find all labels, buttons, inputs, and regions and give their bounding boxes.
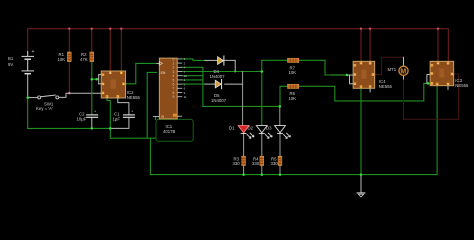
- wire IC4 pin8 drop: [369, 29, 371, 62]
- wire IC3 pins 6-2 bracket: [427, 75, 430, 84]
- svg-text:EN: EN: [161, 71, 166, 75]
- resistor R4: [260, 156, 264, 165]
- wire IC4 pin4 drop: [360, 29, 362, 62]
- battery B1: [22, 51, 35, 74]
- wire C2 bottom to ground rail: [91, 118, 93, 129]
- wire R1 top drop: [68, 29, 70, 52]
- svg-text:330: 330: [271, 161, 279, 166]
- wire IC1 out4 join: [182, 75, 203, 77]
- wire IC4 pin5 stub: [369, 88, 371, 92]
- wire IC1 out2 down: [182, 67, 203, 106]
- chip IC3 NE555: [430, 61, 454, 86]
- svg-text:330: 330: [233, 161, 241, 166]
- wire IC1 EN to ground: [147, 72, 156, 138]
- wire D1 anode drop: [242, 72, 244, 126]
- wire R7 node vertical: [261, 60, 263, 125]
- LED D3: [275, 126, 291, 139]
- capacitor C1: [123, 115, 135, 117]
- svg-text:10K: 10K: [58, 57, 66, 62]
- wire battery to switch: [28, 97, 38, 99]
- resistor R2: [90, 52, 94, 62]
- svg-text:D2: D2: [248, 125, 254, 130]
- svg-text:9: 9: [173, 95, 175, 99]
- wire motor bottom to IC3 pin3: [403, 75, 405, 80]
- svg-text:B1: B1: [8, 56, 14, 61]
- wire IC2 pin3 to IC1 CLK: [126, 63, 157, 83]
- svg-text:+: +: [32, 49, 35, 55]
- LED D2: [256, 126, 272, 139]
- node junction dots: red: [68, 28, 439, 95]
- wire IC2 pin1 to ground: [107, 98, 110, 128]
- wire IC3 pin4 drop: [437, 29, 439, 62]
- wire IC3 pin5 stub: [447, 86, 449, 90]
- wire power rail: [28, 29, 449, 58]
- LED D1 (red): [238, 126, 254, 139]
- svg-text:NE555: NE555: [127, 95, 141, 100]
- wire IC2 pin4 drop: [109, 29, 111, 71]
- chip IC4 NE555: [353, 61, 375, 88]
- wire R7 right to IC4: [299, 60, 347, 75]
- wire green box around IC1 label: [156, 119, 193, 141]
- wire R2 bottom: [91, 62, 93, 80]
- motor MT1: [399, 66, 408, 75]
- svg-text:NE555: NE555: [455, 83, 469, 88]
- IC1 output stubs, digits and pin numbers: [0, 0, 1, 1]
- svg-text:9V: 9V: [8, 62, 13, 67]
- wire node rail to D3/R6: [203, 105, 280, 107]
- svg-text:330: 330: [252, 161, 260, 166]
- wire IC2 pin5 to C1: [118, 98, 129, 114]
- wire IC1 out0 to D4: [182, 59, 205, 61]
- wire ground rail lower-left: [28, 127, 111, 129]
- wire R1 bottom to trigger node: [68, 62, 70, 94]
- wire IC3 pin8 drop (rail corner): [447, 58, 449, 62]
- svg-text:D1: D1: [229, 125, 235, 130]
- wire switch to trigger node: [59, 93, 69, 97]
- wire node down to C2: [91, 79, 93, 114]
- svg-text:NE555: NE555: [379, 84, 393, 89]
- svg-text:10K: 10K: [289, 70, 297, 75]
- wire battery bottom: [27, 75, 29, 98]
- switch SW1: [38, 95, 59, 99]
- wire LED3 cathode: [279, 133, 281, 156]
- wire C1 bottom to ground dot: [110, 118, 129, 129]
- wire IC4 pin1 ground: [360, 88, 362, 174]
- wire IC2 pin8 drop: [120, 29, 122, 71]
- wire threshold node: [92, 78, 97, 80]
- node junction dots: green: [26, 70, 429, 176]
- svg-text:1N4007: 1N4007: [210, 74, 226, 79]
- diode D4: [218, 56, 224, 66]
- wire LED ground rail: [150, 86, 437, 175]
- wire node to pins 7,6 bracket: [97, 78, 99, 80]
- wire IC4 pins 6-2 bracket: [350, 75, 354, 84]
- wire R6 right to IC3: [299, 83, 430, 101]
- wire R2 top drop: [91, 29, 93, 52]
- wire ground jog down: [110, 128, 155, 138]
- svg-text:10µF: 10µF: [77, 117, 87, 122]
- wire IC1 R pin to label box: [156, 117, 160, 120]
- wire LED2 anode/cathode: [261, 133, 263, 156]
- ground: [357, 193, 366, 197]
- resistor R6: [288, 84, 299, 88]
- wire trigger node to IC2 pin2: [69, 92, 101, 94]
- resistor R3: [242, 156, 246, 165]
- wire IC1 out5 join: [182, 79, 203, 81]
- capacitor C2: [86, 115, 98, 117]
- resistor R5: [278, 156, 282, 165]
- svg-text:1N4007: 1N4007: [211, 98, 227, 103]
- wire R6 left to rail node: [280, 86, 288, 106]
- wire D3 anode from node: [279, 106, 281, 125]
- wire ground stub: [360, 175, 362, 193]
- wire D4 cathode jog: [225, 60, 236, 71]
- svg-text:11: 11: [184, 95, 187, 99]
- svg-text:1µF: 1µF: [113, 117, 121, 122]
- wire LED1 cathode to R3: [243, 133, 245, 156]
- wire ground drop to LED rail: [149, 138, 151, 174]
- op-amp-style chip IC2 NE555: [101, 71, 125, 98]
- wire D5 cathode jog: [225, 83, 243, 85]
- wire bright seg to IC4 pins: [331, 74, 347, 76]
- svg-text:10K: 10K: [289, 96, 297, 101]
- svg-text:MT1: MT1: [388, 67, 397, 72]
- wire R7 left: [262, 59, 288, 61]
- IC1 4017B counter: [156, 58, 182, 119]
- svg-text:4017B: 4017B: [163, 129, 176, 134]
- resistor R1: [67, 52, 71, 62]
- wire ground from battery down: [27, 98, 29, 129]
- wire IC1 out6 to D5: [182, 83, 205, 85]
- svg-text:M: M: [400, 68, 406, 75]
- svg-text:Key = 'A': Key = 'A': [36, 106, 53, 111]
- diode D5: [215, 79, 221, 89]
- svg-text:47K: 47K: [80, 57, 88, 62]
- wire IC4 pin3 to motor top: [375, 57, 404, 74]
- svg-text:D3: D3: [266, 125, 272, 130]
- resistor R7: [288, 58, 299, 62]
- wire IC1 out3 long: [182, 71, 262, 73]
